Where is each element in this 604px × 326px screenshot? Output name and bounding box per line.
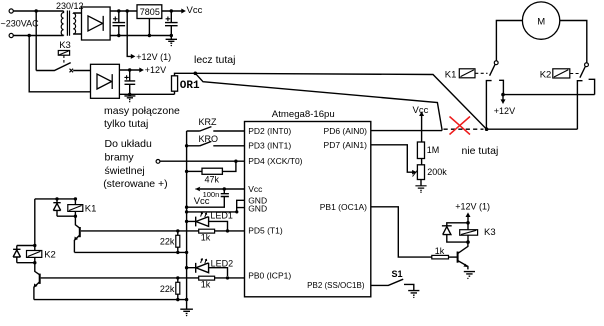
wire 7805 ground leg (148, 19, 150, 36)
svg-text:S1: S1 (392, 269, 403, 279)
wire bottom mains (13, 35, 63, 37)
resistor 22k (1) (177, 231, 179, 235)
ground G6 (180, 309, 193, 313)
svg-text:PD7 (AIN1): PD7 (AIN1) (324, 140, 368, 150)
resistor 22k (2) (177, 278, 179, 282)
resistor 200k (417, 165, 424, 180)
node 22k2 bottom (176, 298, 179, 301)
switch KRZ (187, 127, 245, 131)
transistor Q3 (457, 252, 459, 263)
bridge rectifier B1 (82, 7, 111, 40)
svg-text:(sterowane +): (sterowane +) (103, 178, 168, 190)
svg-text:tylko tutaj: tylko tutaj (104, 118, 148, 130)
wire B1 - output rail (110, 35, 171, 37)
svg-text:PD2 (INT0): PD2 (INT0) (248, 126, 291, 136)
capacitor 100n (187, 189, 229, 207)
ground G7 (408, 291, 419, 296)
wire K3 dashed link (63, 55, 65, 64)
capacitor C3 (polarized) (125, 70, 136, 94)
node K3 coil bottom (466, 240, 470, 244)
ground G2 (166, 36, 177, 44)
wire secondary to bridge (73, 13, 81, 34)
capacitor C2 (polarized) (165, 11, 178, 36)
svg-text:1k: 1k (201, 280, 211, 290)
wire K2 NO terminal to +12V rail (589, 79, 595, 94)
node 100n top (223, 187, 226, 190)
resistor 1M (417, 142, 424, 159)
switch K3 contact (36, 63, 70, 71)
wire K2 pivot terminal (577, 81, 582, 130)
svg-text:K3: K3 (59, 40, 71, 51)
node LED2 join (226, 276, 229, 279)
node LED1 bus (185, 220, 188, 223)
svg-text:Vcc: Vcc (413, 105, 429, 116)
node PD4 branch (234, 160, 237, 163)
node gnd bus (185, 210, 188, 213)
photoresistor OR1 (172, 76, 178, 91)
wire +12V rail (503, 94, 594, 96)
wire coil stubs (467, 223, 469, 242)
svg-text:Atmega8-16pu: Atmega8-16pu (272, 109, 335, 120)
diode D1 flyback (53, 199, 75, 216)
transistor Q2 (35, 263, 40, 275)
node +12V feed (501, 93, 505, 97)
svg-text:1k: 1k (201, 233, 211, 243)
wire line B to PD6 (195, 73, 442, 130)
svg-text:7805: 7805 (140, 7, 160, 17)
wire 7805 output (162, 10, 182, 12)
node relay common junction (485, 127, 489, 131)
regulator U2 7805 (137, 5, 162, 19)
wire PB0 line (41, 277, 245, 279)
wire K3 to bridge B2 (73, 70, 90, 72)
wire K2 coil dashed link (570, 73, 578, 75)
arrow Vcc up (419, 111, 424, 116)
terminal gate-control (156, 160, 160, 164)
transformer TR1 core (67, 11, 69, 36)
wire OR1 bottom (174, 91, 176, 94)
switch K2 contact circle (585, 63, 589, 67)
svg-text:PD3 (INT1): PD3 (INT1) (248, 140, 291, 150)
node 47k bus (185, 170, 188, 173)
wire terminal to PD4 (160, 160, 245, 162)
svg-text:K3: K3 (484, 227, 496, 238)
svg-text:PD5 (T1): PD5 (T1) (248, 225, 283, 235)
svg-text:K2: K2 (540, 70, 552, 81)
svg-text:22k: 22k (160, 237, 175, 247)
node 22k1 bottom (176, 251, 179, 254)
relay coil K2 (driver side) (27, 251, 42, 258)
wire PD5 line (81, 230, 245, 232)
terminal J2 (230VAC bottom) (9, 33, 13, 37)
svg-text:bramy: bramy (105, 152, 135, 164)
svg-text:świetlnej: świetlnej (105, 165, 145, 177)
ground G3 (124, 96, 135, 100)
wire from bottom terminal down to bridge B2 (29, 36, 90, 92)
svg-text:Vcc: Vcc (187, 5, 203, 16)
svg-text:LED2: LED2 (211, 259, 234, 269)
node 100n gnd bus (185, 206, 188, 209)
switch K1 contact circle (494, 61, 498, 65)
node B2 out (128, 68, 131, 71)
relay coil K2 (contact side) (553, 69, 570, 78)
node gnd bracket (235, 210, 238, 213)
wire Vcc pin with arrow (199, 188, 245, 190)
wire B2 + output (119, 69, 139, 71)
node K1 coil top (74, 197, 77, 200)
svg-text:~230VAC: ~230VAC (1, 19, 40, 29)
wire from top terminal down to K3 contact (35, 11, 37, 71)
svg-text:Vcc: Vcc (248, 184, 263, 194)
mcu U1 Atmega8 (245, 122, 371, 297)
ground G4 (415, 186, 426, 191)
wire B2 - output (119, 93, 174, 95)
node cap C1 top (117, 9, 120, 12)
arrow +12V down (502, 95, 504, 100)
svg-text:masy połączone: masy połączone (104, 105, 180, 117)
relay coil K3 (driver side) (460, 230, 478, 236)
resistor 1k (base) (432, 255, 449, 259)
wire K1 coil dashed link (475, 72, 487, 74)
node K2 coil bottom (33, 261, 36, 264)
svg-text:OR1: OR1 (180, 80, 200, 92)
svg-text:PB0 (ICP1): PB0 (ICP1) (248, 271, 291, 281)
wire 200k to gnd (420, 180, 422, 187)
svg-text:nie tutaj: nie tutaj (462, 145, 499, 157)
wire 1k to base (449, 256, 458, 258)
capacitor C1 (polarized) (113, 11, 126, 36)
transistor Q1 (75, 216, 79, 228)
wire motor right (560, 21, 587, 63)
svg-text:M: M (537, 16, 545, 27)
switch S1 (371, 279, 403, 285)
terminal J1 (230VAC top) (9, 9, 13, 13)
svg-text:KRZ: KRZ (199, 117, 218, 127)
node KRO bus (185, 144, 188, 147)
svg-text:K2: K2 (44, 250, 56, 261)
relay coil K3 (contact symbol) (58, 51, 69, 56)
svg-text:200k: 200k (427, 167, 447, 177)
switch KRO (187, 141, 245, 145)
bridge rectifier B2 (91, 64, 120, 98)
svg-text:100n: 100n (203, 190, 220, 199)
arrow +12V(1) up (467, 216, 469, 223)
wire emitter line 1 (74, 251, 186, 253)
wire OR1 top to node (175, 73, 196, 76)
wire motor left (496, 21, 522, 61)
arrow PD7 wiper (412, 170, 417, 175)
node OR1 junction (194, 72, 198, 76)
resistor 1k (LED2) (199, 276, 215, 280)
motor M (522, 2, 559, 39)
wire dashed crossed-out link (444, 128, 484, 130)
wire Vcc pullup vertical (421, 115, 423, 142)
svg-text:+12V (1): +12V (1) (136, 52, 171, 62)
switch K1 blade (490, 65, 495, 76)
arrow +12V(1) (131, 54, 136, 59)
node B2 gnd (128, 93, 131, 96)
arrow Vcc out (181, 9, 186, 14)
wire B1 + output rail (110, 10, 137, 12)
svg-text:PB2 (SS/OC1B): PB2 (SS/OC1B) (307, 281, 365, 290)
switch K2 blade (580, 67, 585, 78)
mark red X (nie tutaj) (450, 117, 471, 135)
wire K1 NO terminal to +12V rail (499, 80, 503, 94)
node bus e2 (185, 298, 188, 301)
node 22k1 top (176, 229, 179, 232)
svg-text:1k: 1k (435, 246, 445, 256)
svg-text:lecz tutaj: lecz tutaj (194, 54, 235, 66)
transformer TR1 primary winding (61, 11, 63, 36)
LED LED2 (187, 263, 228, 276)
svg-text:K1: K1 (445, 69, 457, 80)
node cap C1 bottom (117, 34, 120, 37)
node mains-bottom junction (28, 34, 31, 37)
relay coil K1 (driver side) (68, 205, 83, 212)
node K3 coil top (466, 221, 470, 225)
svg-text:230/12: 230/12 (56, 1, 84, 11)
node +12V(1) tap (126, 9, 129, 12)
wire K1 pivot terminal (486, 81, 491, 130)
wire emitter line 2 (34, 299, 187, 301)
wire line A (lecz tutaj) (195, 73, 486, 129)
svg-text:PB1 (OC1A): PB1 (OC1A) (320, 202, 367, 212)
node bus e1 (185, 251, 188, 254)
node LED2 bus (185, 266, 188, 269)
svg-text:1M: 1M (427, 145, 440, 155)
LED LED1 (187, 217, 228, 230)
diode D2 flyback (13, 246, 35, 263)
svg-text:LED1: LED1 (210, 211, 233, 221)
wire +12V(1) drop (127, 11, 131, 56)
resistor 1k (LED1) (199, 229, 215, 233)
wire K2 coil top rail (17, 245, 35, 247)
svg-text:47k: 47k (205, 175, 220, 185)
svg-text:PD6 (AIN0): PD6 (AIN0) (324, 126, 368, 136)
resistor 47k (187, 170, 202, 172)
svg-text:Do układu: Do układu (105, 138, 152, 150)
wire bottom common rail (487, 128, 578, 130)
svg-text:+12V: +12V (494, 106, 515, 116)
node D1 top (55, 197, 58, 200)
node mains-top junction (35, 9, 38, 12)
svg-text:GND: GND (248, 203, 267, 213)
node rail end gnd (170, 34, 173, 37)
wire PD6 line (371, 130, 442, 132)
svg-text:K1: K1 (85, 203, 97, 214)
transformer TR1 secondary winding (73, 13, 75, 34)
svg-text:KRO: KRO (199, 134, 219, 144)
wire top mains (13, 10, 63, 12)
node cap C2 top (170, 9, 173, 12)
wire 1M to 200k (421, 159, 423, 165)
svg-text:22k: 22k (160, 284, 175, 294)
wire K1 coil top rail (35, 198, 76, 200)
relay coil K1 (contact side) (459, 69, 475, 78)
wire K1K2 coil link (34, 199, 36, 246)
ground G5 (464, 272, 475, 277)
svg-text:+12V: +12V (145, 65, 166, 75)
node 7805 gnd (148, 34, 151, 37)
node K2 coil top (33, 244, 36, 247)
node 22k2 top (176, 276, 179, 279)
svg-text:PD4 (XCK/T0): PD4 (XCK/T0) (248, 156, 302, 166)
arrow +12V (139, 68, 144, 73)
node K1 coil bottom (74, 215, 77, 218)
node LED1 join (226, 229, 229, 232)
wire GND pins bracket (187, 200, 245, 212)
svg-text:+12V (1): +12V (1) (455, 202, 490, 212)
wire ground bus (left) (186, 131, 188, 301)
wire PD7 line (371, 145, 413, 172)
wire PB1 line (371, 207, 432, 257)
diode D3 flyback (442, 223, 468, 242)
